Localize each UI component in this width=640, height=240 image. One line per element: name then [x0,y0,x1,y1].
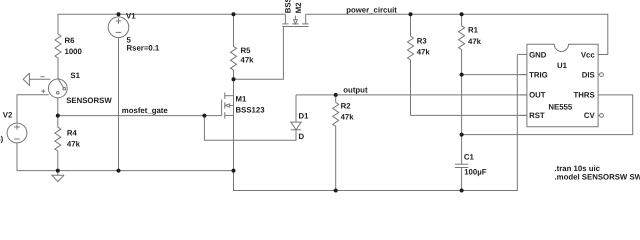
wire S1 minus control [29,78,50,80]
svg-text:SENSORSW: SENSORSW [66,96,112,105]
svg-text:power_circuit: power_circuit [346,6,397,15]
wire mosfet_gate [58,115,222,117]
svg-text:R2: R2 [341,102,352,111]
svg-text:R5: R5 [241,46,252,55]
junction node mosfet_gate at S1 [56,114,60,118]
svg-text:C1: C1 [464,153,475,162]
svg-text:47k: 47k [341,113,355,122]
wire V1 bottom to ground rail [118,38,120,171]
resistor R2 [333,95,339,191]
resistor R3 [408,14,414,115]
voltage source V2 [7,123,27,143]
svg-text:R1: R1 [468,26,479,35]
wire R3 to RST [411,114,527,116]
svg-text:D1: D1 [299,111,310,120]
resistor R1 [459,14,465,134]
svg-text:47k: 47k [417,47,431,56]
resistor R5 [231,14,237,96]
resistor R6 [55,34,61,79]
svg-text:V2: V2 [3,111,13,120]
resistor R4 [55,116,61,171]
svg-text:TRIG: TRIG [529,70,548,79]
junction R5 top rail [232,12,236,16]
junction M2 gate tap [232,77,236,81]
wire S1 plus control to V2 [17,95,49,123]
svg-text:R4: R4 [67,129,78,138]
svg-text:5s): 5s) [0,135,4,144]
svg-text:47k: 47k [468,37,482,46]
junction R3 top rail [409,12,413,16]
switch S1 [48,79,67,98]
voltage source V1 [108,17,129,38]
junction R4 ground [56,169,60,173]
svg-text:R3: R3 [417,36,428,45]
ground symbol bottom left [52,171,64,182]
svg-text:M1: M1 [236,94,247,103]
junction R2 on output [334,93,338,97]
transistor M1 [222,92,234,118]
wire M1 source down [234,54,518,190]
svg-text:.model SENSORSW SW(: .model SENSORSW SW( [555,172,640,181]
svg-text:THRS: THRS [573,91,594,100]
diode D1 [204,95,301,140]
svg-text:output: output [343,86,368,95]
svg-text:CV: CV [584,111,596,120]
svg-text:Vcc: Vcc [581,50,596,59]
svg-text:RST: RST [529,111,545,120]
svg-text:OUT: OUT [529,91,546,100]
op-amp U1 box NE555 [518,44,604,127]
ground (rotated left) at S1 [23,73,29,85]
svg-text:BSS123: BSS123 [236,106,266,115]
junction R1 top rail [460,12,464,16]
svg-text:BSS84: BSS84 [284,0,293,13]
svg-text:M2: M2 [294,2,303,13]
svg-text:R6: R6 [65,36,76,45]
wire THRS loop [462,95,633,135]
svg-text:100µF: 100µF [464,168,487,177]
svg-text:Rser=0.1: Rser=0.1 [127,43,160,52]
source polarity marks [14,18,121,139]
wire top rail left segment [58,14,285,34]
wire S1 bottom to mosfet_gate node [57,98,59,116]
junction M1 source ground [232,169,236,173]
wire top rail right segment [306,14,608,54]
junction V1 top rail [117,12,121,16]
svg-text:DIS: DIS [582,70,595,79]
svg-text:47k: 47k [67,140,81,149]
junction TRIG tap [460,73,464,77]
svg-text:GND: GND [529,50,547,59]
junction R2 bottom [334,189,338,193]
transistor M1 internal vertical [233,96,235,116]
capacitor C1 [455,135,468,191]
svg-text:mosfet_gate: mosfet_gate [122,106,169,115]
svg-text:1000: 1000 [65,47,83,56]
svg-text:S1: S1 [70,71,80,80]
svg-text:D: D [299,132,305,141]
svg-text:NE555: NE555 [548,103,573,112]
wire output [296,94,527,96]
svg-text:V1: V1 [126,12,136,21]
svg-text:47k: 47k [241,56,255,65]
wire M2 gate tap [234,27,284,80]
junction D1 tap on mosfet_gate [202,114,206,118]
junction V1 ground [117,169,121,173]
junction C1 THRS node [460,133,464,137]
transistor M2 [282,14,308,26]
wire TRIG [462,74,527,76]
wire V2 bottom to ground rail [17,143,234,171]
junction C1 bottom [460,189,464,193]
svg-text:U1: U1 [557,61,568,70]
